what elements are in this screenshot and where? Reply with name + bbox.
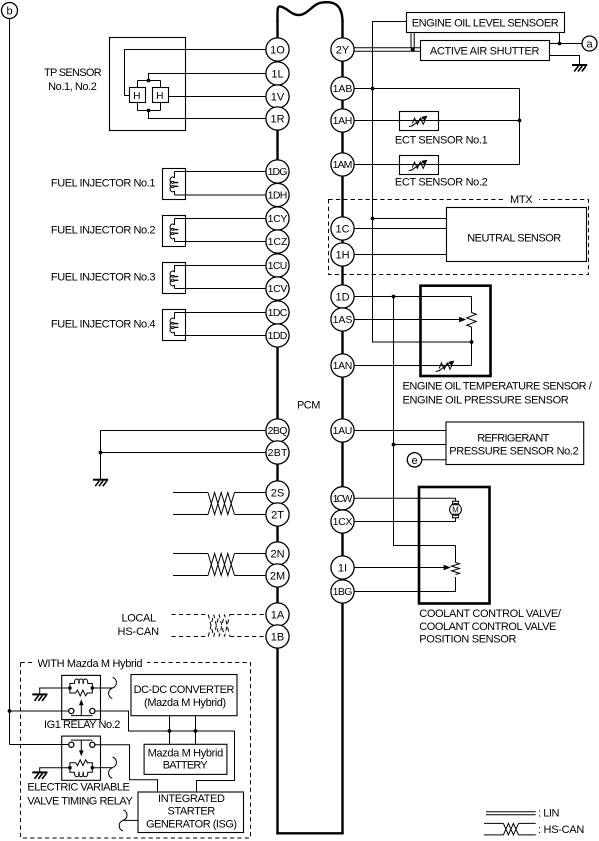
svg-text:1B: 1B <box>271 632 284 644</box>
svg-text:1V: 1V <box>271 92 285 104</box>
svg-text:1H: 1H <box>335 250 349 262</box>
svg-text:FUEL INJECTOR No.1: FUEL INJECTOR No.1 <box>51 178 156 190</box>
wire LIN stub pair to engine oil level sensor <box>411 33 414 52</box>
pin 2M <box>266 564 289 587</box>
wire x393 to position sensor resistor <box>455 546 457 563</box>
pin 1R <box>266 107 289 130</box>
junction LIN stub <box>411 48 415 52</box>
refrigerant pressure sensor box <box>446 422 584 465</box>
svg-text:COOLANT CONTROL VALVE: COOLANT CONTROL VALVE <box>419 621 556 633</box>
local HS-CAN dashed tails left <box>172 615 209 637</box>
node e (page connector) <box>407 453 421 467</box>
pin 1AB <box>331 77 354 100</box>
relay IG1 No.2 <box>62 675 101 719</box>
pin 1CZ <box>266 230 289 253</box>
label COOLANT CONTROL VALVE / POSITION SENSOR <box>419 608 562 646</box>
relay electric variable valve timing <box>62 736 101 780</box>
svg-text:(Mazda M Hybrid): (Mazda M Hybrid) <box>144 697 226 709</box>
twisted pair 2N/2M left tails <box>173 554 208 576</box>
pin 1I <box>331 556 354 579</box>
wire 1AM through ECT2 <box>354 164 520 166</box>
junction b rail to IG1 relay <box>8 709 12 713</box>
svg-text:M: M <box>452 505 459 514</box>
wire EVVT contact to ISG <box>95 745 158 793</box>
pin 1V <box>266 85 289 108</box>
neutral sensor box <box>447 208 587 262</box>
engine oil level sensor box <box>407 13 565 33</box>
pin 1AM <box>331 153 354 176</box>
svg-text:1AU: 1AU <box>333 425 353 437</box>
svg-text:1A: 1A <box>271 610 285 622</box>
junction x393 refrigerant branch <box>392 443 396 447</box>
engine oil temp/pressure sensor box <box>421 286 491 376</box>
wire TP to 1V <box>169 96 267 98</box>
pin 1D <box>331 285 354 308</box>
coolant control valve box <box>419 487 490 604</box>
svg-text:HS-CAN: HS-CAN <box>118 626 160 638</box>
pin 1CV <box>266 277 289 300</box>
svg-text:a: a <box>586 39 593 51</box>
local HS-CAN dashed braid <box>208 615 230 637</box>
wire injector3 to 1CU <box>175 265 267 267</box>
svg-text:WITH Mazda M Hybrid: WITH Mazda M Hybrid <box>38 658 143 670</box>
wire braid to 2S <box>235 492 267 494</box>
svg-text:1CV: 1CV <box>268 283 288 295</box>
pin 1DD <box>266 324 289 347</box>
wire b rail vertical <box>9 19 11 745</box>
connector squiggle EVVT <box>109 757 117 778</box>
wire 2BQ to ground <box>101 431 267 480</box>
pin 1DG <box>266 160 289 183</box>
svg-text:IG1 RELAY No.2: IG1 RELAY No.2 <box>44 719 120 731</box>
label ELECTRIC VARIABLE VALVE TIMING RELAY <box>27 781 133 807</box>
svg-text:1AN: 1AN <box>333 360 353 372</box>
PCM connector bus bottom <box>276 832 343 834</box>
local HS-CAN dashed tails right <box>230 615 266 637</box>
svg-text:1DG: 1DG <box>268 166 288 178</box>
junction x372 feed <box>470 340 474 344</box>
label MTX <box>504 193 539 206</box>
wire sensor supply vertical x372 <box>373 22 472 343</box>
label Mazda M Hybrid BATTERY <box>148 748 224 772</box>
legend LIN symbol <box>486 812 536 815</box>
svg-text:COOLANT CONTROL VALVE/: COOLANT CONTROL VALVE/ <box>419 608 562 620</box>
svg-text:H: H <box>133 91 140 102</box>
svg-text:PRESSURE SENSOR No.2: PRESSURE SENSOR No.2 <box>449 446 579 458</box>
PCM connector bus right rail <box>341 20 343 834</box>
wire 1CW to motor <box>354 498 456 501</box>
svg-text:FUEL INJECTOR No.2: FUEL INJECTOR No.2 <box>51 225 156 237</box>
pin 2T <box>266 503 289 526</box>
wire shutter to ground <box>550 56 580 65</box>
svg-text:1CU: 1CU <box>268 260 288 272</box>
svg-text:1DH: 1DH <box>268 190 288 202</box>
svg-text:PCM: PCM <box>297 400 321 412</box>
svg-text:1I: 1I <box>338 563 347 575</box>
fuel injector No.1 <box>163 169 186 200</box>
wire 1AB to pullup rail <box>354 88 520 90</box>
svg-text:No.1, No.2: No.1, No.2 <box>48 81 97 93</box>
wire EVVT coil continuation <box>101 767 113 769</box>
node b (page connector) <box>2 3 18 19</box>
svg-text:ECT SENSOR No.1: ECT SENSOR No.1 <box>395 134 488 146</box>
WITH Mazda M Hybrid dashed box <box>21 663 251 839</box>
node a (page connector) <box>582 36 597 51</box>
svg-text:2M: 2M <box>270 571 285 583</box>
pin 1AN <box>331 354 354 377</box>
pin 1AS <box>331 308 354 331</box>
twisted pair 2S/2T braid <box>208 493 235 515</box>
pin 1DC <box>266 301 289 324</box>
svg-text:1R: 1R <box>270 114 284 126</box>
wire DCDC to battery right <box>195 716 197 745</box>
svg-text:: HS-CAN: : HS-CAN <box>538 824 584 836</box>
junction DCDC right <box>194 729 198 733</box>
pin 1DH <box>266 183 289 206</box>
pin 1AU <box>331 419 354 442</box>
junction 1AB x372 <box>371 87 375 91</box>
pin 1CU <box>266 254 289 277</box>
hall element H no.1 <box>130 88 146 103</box>
wire injector1 to 1DH <box>175 194 267 196</box>
wire EVVT coil to ground <box>40 768 62 772</box>
svg-text:ACTIVE AIR SHUTTER: ACTIVE AIR SHUTTER <box>430 46 540 58</box>
svg-text:1CY: 1CY <box>268 213 288 225</box>
wire b rail to IG1 relay contact <box>10 710 69 712</box>
pin 1L <box>266 62 289 85</box>
junction TP top node <box>147 79 151 83</box>
svg-text:STARTER: STARTER <box>168 806 216 818</box>
wire 1L to TP sensor node <box>149 74 267 81</box>
wire node e to refrigerant sensor <box>422 459 446 461</box>
svg-text:FUEL INJECTOR No.4: FUEL INJECTOR No.4 <box>51 319 156 331</box>
label WITH Mazda M Hybrid <box>33 657 147 670</box>
svg-text:BATTERY: BATTERY <box>163 760 209 772</box>
wire TP top bracket <box>138 81 161 88</box>
PCM connector bus top wave <box>277 2 342 22</box>
svg-text:2N: 2N <box>270 549 284 561</box>
twisted pair 2N/2M braid <box>208 554 235 576</box>
svg-text:1CX: 1CX <box>333 516 353 528</box>
ISG box <box>138 792 244 833</box>
svg-text:ENGINE OIL TEMPERATURE SENSOR: ENGINE OIL TEMPERATURE SENSOR / <box>403 380 593 392</box>
wire injector2 to 1CZ <box>175 241 267 243</box>
wire x372 branch to neutral sensor <box>373 218 447 220</box>
svg-text:2T: 2T <box>271 510 284 522</box>
svg-text:POSITION SENSOR: POSITION SENSOR <box>419 634 516 646</box>
pin 1A <box>266 603 289 626</box>
svg-text:ECT SENSOR No.2: ECT SENSOR No.2 <box>395 176 488 188</box>
svg-text:2BQ: 2BQ <box>268 425 288 437</box>
wire branch up to oil level sensor <box>559 33 561 44</box>
svg-text:1CZ: 1CZ <box>268 236 288 248</box>
pin 1B <box>266 625 289 648</box>
wire injector1 to 1DG <box>175 171 267 173</box>
wire branch to refrigerant sensor <box>394 444 447 446</box>
svg-text:LOCAL: LOCAL <box>122 612 157 624</box>
svg-text:GENERATOR (ISG): GENERATOR (ISG) <box>146 819 237 831</box>
wire 1I wiper arrow <box>354 565 451 570</box>
wire 1AN through oil temp thermistor <box>354 365 472 367</box>
wire injector2 to 1CY <box>175 218 267 220</box>
resistor coolant position sensor <box>452 563 460 575</box>
wire shutter to node a <box>550 43 583 45</box>
wire IG1 coil continuation <box>101 687 113 689</box>
wire IG1 coil to ground <box>40 688 62 694</box>
wire 1O to TP sensor <box>125 50 267 96</box>
fuel injector No.2 <box>163 216 186 247</box>
svg-text:2Y: 2Y <box>336 45 350 57</box>
svg-text:Mazda M Hybrid: Mazda M Hybrid <box>148 748 224 760</box>
label INTEGRATED STARTER GENERATOR (ISG) <box>146 793 237 831</box>
active air shutter box <box>421 41 550 61</box>
svg-text:2S: 2S <box>271 488 284 500</box>
wire b rail to EVVT relay contact <box>10 744 69 746</box>
twisted pair 2S/2T left tails <box>173 493 208 515</box>
svg-text:e: e <box>411 455 417 467</box>
wire 1CX to motor <box>354 518 456 522</box>
battery box <box>144 744 227 774</box>
hall element H no.2 <box>153 88 169 103</box>
ground G1 <box>93 480 108 487</box>
pin 1CX <box>331 510 354 533</box>
wire braid to 2M <box>235 575 267 577</box>
pin 2S <box>266 481 289 504</box>
label TP SENSOR No.1, No.2 <box>44 67 102 93</box>
fuel injector No.3 <box>163 263 186 294</box>
wire 1AU to refrigerant sensor <box>354 430 446 432</box>
svg-text:1L: 1L <box>271 69 283 81</box>
label DC-DC CONVERTER (Mazda M Hybrid) <box>134 684 235 709</box>
wire IG1 contact to supply rail <box>95 711 235 793</box>
wire pullup rail vertical x519 <box>519 89 521 165</box>
junction ground node <box>99 451 103 455</box>
label LOCAL HS-CAN <box>118 612 160 638</box>
svg-text:1DD: 1DD <box>268 330 288 342</box>
svg-text:INTEGRATED: INTEGRATED <box>158 793 225 805</box>
wire injector3 to 1CV <box>175 288 267 290</box>
pin 1AH <box>331 109 354 132</box>
pin 1C <box>331 217 354 240</box>
svg-text:REFRIGERANT: REFRIGERANT <box>477 433 549 445</box>
PCM connector bus left rail <box>276 20 278 834</box>
wire TP bottom bracket <box>138 103 161 111</box>
svg-text:ELECTRIC VARIABLE: ELECTRIC VARIABLE <box>27 781 129 793</box>
pin 2N <box>266 542 289 565</box>
resistor oil pressure sense <box>467 313 477 327</box>
svg-text:: LIN: : LIN <box>538 808 560 820</box>
svg-text:FUEL INJECTOR No.3: FUEL INJECTOR No.3 <box>51 272 156 284</box>
wire 2BT to ground junction <box>101 452 267 454</box>
pin 1CW <box>331 487 354 510</box>
junction node a branch <box>558 42 562 46</box>
pin 1BG <box>331 580 354 603</box>
junction ECT1 rail <box>518 119 522 123</box>
svg-text:1AB: 1AB <box>333 83 353 95</box>
svg-text:1O: 1O <box>270 45 285 57</box>
legend HS-CAN symbol <box>484 823 536 835</box>
svg-text:1AH: 1AH <box>333 115 353 127</box>
wire braid to 2N <box>235 553 267 555</box>
pin 2BQ <box>266 419 289 442</box>
wire 1AS wiper arrow <box>354 317 466 322</box>
wire injector4 to 1DC <box>175 312 267 314</box>
pin 2BT <box>266 441 289 464</box>
ground G4 <box>32 772 47 779</box>
pin 1H <box>331 243 354 266</box>
svg-text:1BG: 1BG <box>333 586 353 598</box>
svg-text:1AM: 1AM <box>333 159 353 171</box>
wire TP node to 1R <box>149 111 267 119</box>
thermistor oil temp <box>436 361 455 372</box>
connector squiggle ISG <box>119 810 127 831</box>
wire 1H to neutral sensor <box>354 254 447 256</box>
svg-text:1AS: 1AS <box>333 314 353 326</box>
svg-text:ENGINE OIL LEVEL SENSOER: ENGINE OIL LEVEL SENSOER <box>412 17 559 29</box>
wire 1AH through ECT1 <box>354 120 520 122</box>
wire 1BG to resistor bottom <box>354 577 456 592</box>
DC-DC converter box <box>131 675 237 716</box>
wire x393 vertical rail <box>394 297 456 546</box>
wire DCDC to battery left <box>169 716 171 745</box>
svg-text:1D: 1D <box>335 292 349 304</box>
wire LIN pair 2Y to boxes <box>354 48 421 51</box>
svg-text:1CW: 1CW <box>333 493 353 505</box>
svg-text:NEUTRAL SENSOR: NEUTRAL SENSOR <box>467 232 561 244</box>
ground G3 <box>32 694 47 701</box>
svg-text:b: b <box>6 6 12 18</box>
ECT sensor No.1 <box>400 112 439 131</box>
pin 2Y <box>331 38 354 61</box>
wire 1D to sensor resistor top <box>354 297 472 313</box>
svg-text:1DC: 1DC <box>268 307 288 319</box>
connector squiggle IG1 <box>109 677 117 698</box>
svg-text:VALVE TIMING RELAY: VALVE TIMING RELAY <box>27 795 133 807</box>
MTX dashed box <box>329 200 589 275</box>
wire injector4 to 1DD <box>175 335 267 337</box>
pin 1O <box>266 38 289 61</box>
wire ISG continuation <box>123 819 138 821</box>
wire braid to 2T <box>235 514 267 516</box>
svg-text:ENGINE OIL PRESSURE SENSOR: ENGINE OIL PRESSURE SENSOR <box>403 395 569 407</box>
svg-text:1C: 1C <box>335 224 349 236</box>
junction 1D x393 <box>392 295 396 299</box>
ECT sensor No.2 <box>400 156 439 175</box>
label ENGINE OIL TEMPERATURE / PRESSURE SENSOR <box>403 380 593 406</box>
TP sensor box <box>110 38 186 131</box>
junction x372 neutral branch <box>371 217 375 221</box>
wire resistor bottom to thermistor <box>471 327 473 366</box>
pin 1CY <box>266 207 289 230</box>
svg-text:MTX: MTX <box>510 194 533 206</box>
junction DCDC left <box>168 729 172 733</box>
label REFRIGERANT PRESSURE SENSOR No.2 <box>449 433 579 458</box>
svg-text:TP SENSOR: TP SENSOR <box>44 67 102 79</box>
motor M coolant valve <box>450 501 462 518</box>
ground G2 <box>572 65 587 72</box>
junction TP bottom node <box>147 109 151 113</box>
svg-text:2BT: 2BT <box>268 447 288 459</box>
svg-text:H: H <box>156 91 163 102</box>
wire 1C to neutral sensor <box>354 228 447 230</box>
fuel injector No.4 <box>163 310 186 341</box>
svg-text:DC-DC CONVERTER: DC-DC CONVERTER <box>134 684 235 696</box>
